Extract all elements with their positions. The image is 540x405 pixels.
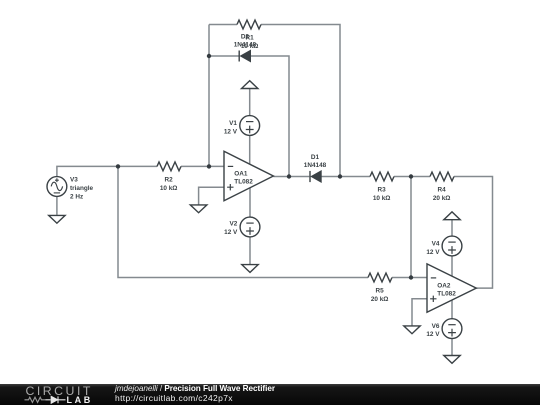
- node dot R3-R4: [409, 174, 413, 178]
- source V6: [442, 319, 462, 339]
- op-amp OA2: [427, 264, 476, 312]
- node dot OA1 minus: [207, 164, 211, 168]
- svg-text:1N4148: 1N4148: [304, 162, 327, 169]
- svg-text:12 V: 12 V: [426, 249, 440, 256]
- wire R3 to R4: [394, 176, 430, 178]
- wire top loop right leg: [261, 25, 340, 177]
- svg-text:V6: V6: [432, 323, 440, 330]
- diode D1: [309, 171, 311, 182]
- svg-text:R2: R2: [165, 177, 174, 184]
- ground OA2 plus: [404, 326, 420, 334]
- svg-text:20 kΩ: 20 kΩ: [433, 195, 451, 202]
- svg-text:OA2: OA2: [437, 282, 451, 289]
- wire node B vertical: [410, 177, 412, 278]
- svg-text:10 kΩ: 10 kΩ: [160, 185, 178, 192]
- wire R4 to OA2 output: [454, 177, 493, 289]
- svg-text:LAB: LAB: [67, 395, 93, 405]
- svg-text:V3: V3: [70, 176, 78, 183]
- svg-text:20 kΩ: 20 kΩ: [371, 296, 389, 303]
- diode D2: [238, 51, 240, 62]
- svg-text:R5: R5: [376, 287, 385, 294]
- ground under V3: [49, 215, 65, 223]
- node dot input: [116, 164, 120, 168]
- resistor R5: [368, 273, 392, 282]
- source V2: [240, 217, 260, 237]
- ground under V6: [444, 356, 460, 364]
- node dot D2 row: [207, 54, 211, 58]
- wire R2 to OA1 minus input: [181, 165, 224, 167]
- svg-text:10 kΩ: 10 kΩ: [373, 195, 391, 202]
- ground OA1 plus: [190, 205, 207, 213]
- wire V1 stems: [249, 89, 251, 165]
- wire V3 top to R2: [57, 166, 157, 176]
- wire top loop left leg: [209, 25, 237, 167]
- wire node A down to R5 row: [118, 166, 368, 277]
- wire OA2 plus to ground: [412, 299, 427, 326]
- svg-text:V4: V4: [432, 241, 440, 248]
- wire V3 bottom stem: [56, 197, 58, 215]
- svg-text:V2: V2: [229, 221, 237, 228]
- source V1: [240, 116, 260, 136]
- ground above V1 flipped: [242, 81, 258, 89]
- op-amp OA1: [224, 151, 273, 201]
- svg-text:TL082: TL082: [437, 291, 456, 298]
- resistor R4: [430, 172, 454, 181]
- node dot output-D2: [287, 174, 291, 178]
- resistor R1: [237, 20, 261, 29]
- svg-text:12 V: 12 V: [426, 331, 440, 338]
- svg-text:jmdejoanelli / Precision Full: jmdejoanelli / Precision Full Wave Recti…: [114, 384, 276, 393]
- svg-text:12 V: 12 V: [224, 229, 238, 236]
- wire D1 to R3: [321, 176, 370, 178]
- svg-text:D1: D1: [311, 154, 320, 161]
- node dot OA2 minus: [409, 275, 413, 279]
- ground above V4 flipped: [444, 212, 460, 220]
- wire diode D2 row: [209, 56, 289, 177]
- resistor R2: [157, 162, 181, 171]
- wire R5 to OA2 minus node: [392, 277, 427, 279]
- svg-text:http://circuitlab.com/c242p7x: http://circuitlab.com/c242p7x: [115, 393, 233, 403]
- svg-text:1N4148: 1N4148: [234, 42, 257, 49]
- svg-text:R4: R4: [438, 186, 447, 193]
- svg-text:R3: R3: [378, 186, 387, 193]
- svg-text:2 Hz: 2 Hz: [70, 193, 83, 200]
- source V4: [442, 236, 462, 256]
- svg-text:triangle: triangle: [70, 185, 94, 192]
- wire V4 stems: [451, 220, 453, 277]
- svg-text:TL082: TL082: [234, 179, 253, 186]
- ground under V2: [242, 265, 258, 273]
- svg-text:D2: D2: [241, 34, 250, 41]
- wire V6 stems: [451, 300, 453, 355]
- svg-text:12 V: 12 V: [224, 128, 238, 135]
- svg-text:OA1: OA1: [234, 170, 248, 177]
- logo diode: [46, 396, 66, 403]
- wire V2 stems: [249, 187, 251, 264]
- wire OA1 plus to ground: [199, 187, 224, 205]
- node dot output-R1: [338, 174, 342, 178]
- logo resistor squiggle: [25, 397, 46, 402]
- wire OA1 output to D1: [273, 176, 309, 178]
- svg-text:V1: V1: [229, 120, 237, 127]
- resistor R3: [370, 172, 394, 181]
- source V3: [47, 177, 67, 197]
